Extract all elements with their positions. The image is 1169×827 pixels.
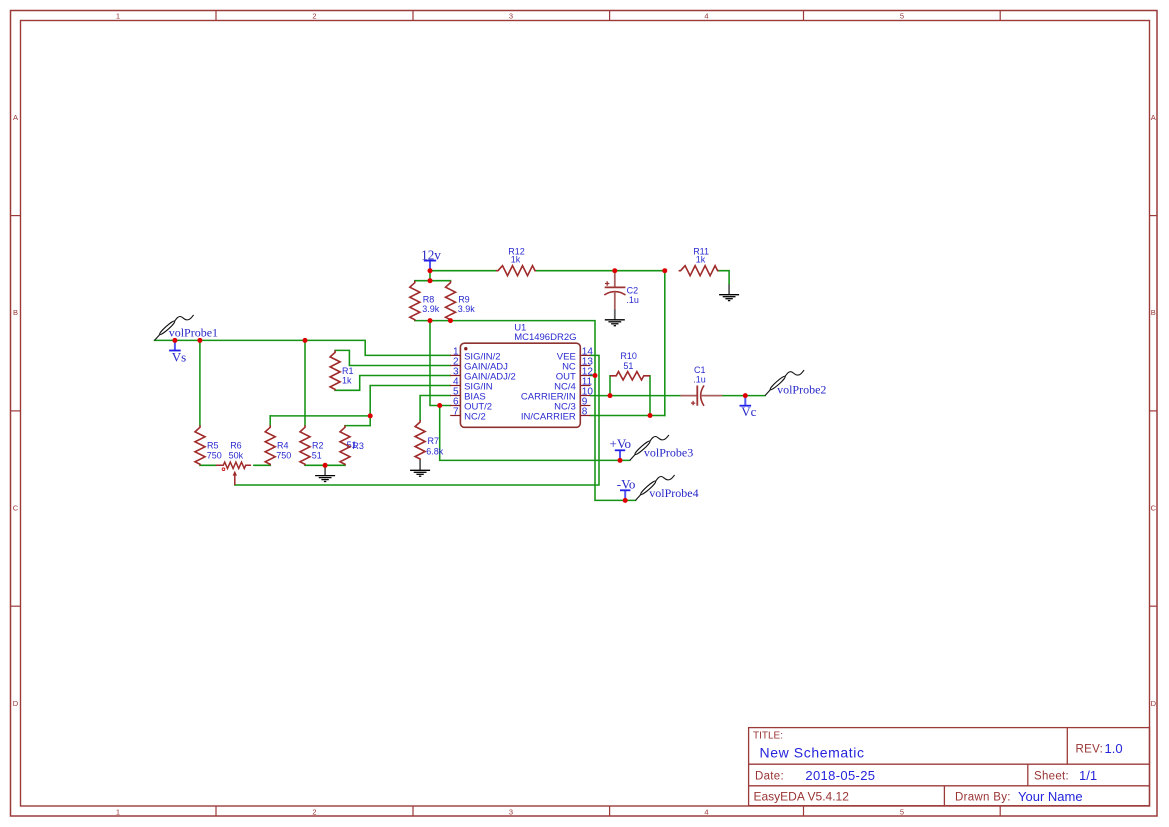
wire pin 4 to R3 bbox=[345, 386, 450, 426]
wire R12 to R11 rail bbox=[536, 270, 665, 272]
wire R1 top to pin 2 bbox=[335, 350, 450, 365]
svg-text:1: 1 bbox=[116, 12, 120, 21]
svg-text:R5: R5 bbox=[207, 440, 219, 450]
junction Vs flag bbox=[172, 338, 177, 343]
svg-text:3: 3 bbox=[509, 12, 513, 21]
svg-text:REV:: REV: bbox=[1076, 744, 1104, 756]
junction R10 right bbox=[648, 413, 653, 418]
wire pin 10 to C1 bbox=[591, 395, 681, 397]
svg-text:2018-05-25: 2018-05-25 bbox=[805, 768, 875, 783]
svg-text:50k: 50k bbox=[229, 451, 244, 461]
svg-text:2: 2 bbox=[312, 808, 316, 817]
junction pin 4 R4 bbox=[368, 413, 373, 418]
wire pin 6 to +Vo probe bbox=[440, 406, 630, 461]
wire R4 top drop bbox=[269, 416, 271, 425]
U1 left pin numbers 1-7 bbox=[453, 346, 459, 417]
resistor R9 bbox=[446, 281, 476, 321]
wire R11 to ground bbox=[719, 271, 730, 285]
capacitor C2 .1u bbox=[604, 271, 639, 310]
potentiometer R6 50k bbox=[216, 441, 251, 486]
wire C1 to Vc probe bbox=[722, 395, 765, 397]
svg-text:Drawn By:: Drawn By: bbox=[955, 792, 1011, 804]
title block outline bbox=[749, 728, 1150, 806]
junction R10 left bbox=[608, 393, 613, 398]
svg-text:Sheet:: Sheet: bbox=[1034, 771, 1069, 783]
svg-text:1.0: 1.0 bbox=[1105, 741, 1123, 756]
svg-text:1: 1 bbox=[116, 808, 120, 817]
svg-text:MC1496DR2G: MC1496DR2G bbox=[514, 332, 576, 343]
resistor R11 bbox=[679, 246, 719, 275]
capacitor C1 .1u bbox=[680, 365, 722, 406]
svg-text:C1: C1 bbox=[694, 365, 706, 375]
svg-text:R1: R1 bbox=[342, 366, 354, 376]
U1 right pin numbers 14-8 bbox=[582, 346, 594, 417]
net flag Vc bbox=[740, 396, 757, 419]
svg-text:A: A bbox=[13, 113, 18, 122]
svg-text:Vs: Vs bbox=[172, 349, 186, 364]
svg-text:D: D bbox=[1151, 699, 1157, 708]
svg-text:.1u: .1u bbox=[626, 295, 639, 305]
svg-text:6.8k: 6.8k bbox=[426, 446, 444, 456]
svg-text:750: 750 bbox=[276, 450, 291, 460]
svg-text:12v: 12v bbox=[421, 248, 441, 263]
resistor R5 bbox=[195, 425, 222, 465]
resistor R8 bbox=[410, 281, 440, 321]
svg-text:volProbe2: volProbe2 bbox=[777, 382, 826, 396]
svg-text:A: A bbox=[1151, 113, 1156, 122]
ground C2 bbox=[605, 310, 625, 326]
svg-text:-Vo: -Vo bbox=[617, 476, 636, 491]
svg-text:C: C bbox=[1151, 504, 1157, 513]
wire R2 R3 bottom bbox=[305, 464, 345, 466]
U1 pin 1 marker dot bbox=[464, 347, 467, 350]
svg-text:B: B bbox=[13, 308, 18, 317]
resistor R4 bbox=[265, 425, 291, 465]
svg-text:R2: R2 bbox=[312, 440, 324, 450]
svg-text:1/1: 1/1 bbox=[1079, 768, 1097, 783]
resistor R7 bbox=[415, 420, 444, 460]
ground R7 bbox=[410, 460, 430, 476]
wire R10 right drop bbox=[649, 376, 651, 416]
frame row letters right bbox=[1151, 113, 1157, 708]
resistor R1 bbox=[330, 350, 353, 390]
junction R8 bottom bbox=[428, 318, 433, 323]
svg-text:750: 750 bbox=[207, 450, 222, 460]
junction R8 R9 top bbox=[428, 278, 433, 283]
svg-text:R4: R4 bbox=[277, 440, 289, 450]
junction R11 rail bbox=[662, 268, 667, 273]
svg-text:51: 51 bbox=[312, 450, 322, 460]
junction C2 rail bbox=[612, 268, 617, 273]
svg-text:4: 4 bbox=[704, 808, 708, 817]
svg-text:8: 8 bbox=[582, 406, 588, 417]
svg-text:R10: R10 bbox=[620, 351, 637, 361]
svg-text:Your Name: Your Name bbox=[1018, 789, 1083, 804]
svg-text:5: 5 bbox=[900, 12, 904, 21]
net flag Vs bbox=[169, 340, 186, 364]
U1 left pin names bbox=[464, 351, 516, 422]
svg-text:5: 5 bbox=[900, 808, 904, 817]
wire R8 R9 top bbox=[415, 280, 451, 282]
probe volProbe2 bbox=[765, 370, 826, 396]
svg-text:New Schematic: New Schematic bbox=[760, 745, 865, 761]
svg-text:volProbe1: volProbe1 bbox=[169, 326, 218, 340]
svg-text:IN/CARRIER: IN/CARRIER bbox=[521, 411, 576, 422]
ground R11 bbox=[719, 284, 739, 300]
svg-text:3.9k: 3.9k bbox=[458, 304, 476, 314]
svg-text:51: 51 bbox=[623, 361, 633, 371]
svg-text:R3: R3 bbox=[352, 441, 364, 451]
junction +Vo flag bbox=[618, 458, 623, 463]
svg-text:NC/2: NC/2 bbox=[464, 411, 486, 422]
wire 12v rail to R12 bbox=[430, 270, 496, 272]
svg-text:C: C bbox=[13, 504, 19, 513]
svg-text:+Vo: +Vo bbox=[610, 436, 632, 451]
svg-text:volProbe4: volProbe4 bbox=[649, 486, 698, 500]
junction Vc flag bbox=[743, 393, 748, 398]
wire R5 to R6 bbox=[200, 464, 216, 466]
frame column numbers bottom bbox=[116, 808, 904, 817]
svg-text:Vc: Vc bbox=[741, 404, 756, 419]
svg-text:2: 2 bbox=[312, 12, 316, 21]
junction 12v rail bbox=[428, 268, 433, 273]
svg-text:D: D bbox=[13, 699, 19, 708]
svg-text:.1u: .1u bbox=[693, 375, 706, 385]
probe volProbe4 bbox=[636, 475, 699, 501]
net flag +Vo bbox=[610, 436, 632, 461]
svg-text:3.9k: 3.9k bbox=[422, 304, 440, 314]
U1 right pin names bbox=[521, 351, 576, 422]
resistor R3 bbox=[340, 425, 364, 465]
net flag -Vo bbox=[617, 476, 636, 500]
resistor R10 bbox=[610, 351, 650, 380]
svg-text:volProbe3: volProbe3 bbox=[644, 446, 693, 460]
U1 left pin stubs 1-7 bbox=[450, 355, 460, 415]
junction -Vo flag bbox=[623, 498, 628, 503]
U1 right pin stubs 8-14 bbox=[580, 355, 590, 415]
frame row letters left bbox=[13, 113, 19, 708]
wire R5 drop bbox=[199, 340, 201, 425]
wire 12v to R8 R9 junction bbox=[429, 271, 431, 281]
power flag 12v bbox=[421, 248, 441, 271]
svg-text:R7: R7 bbox=[428, 436, 440, 446]
svg-text:7: 7 bbox=[453, 406, 459, 417]
junction ground R2 R3 bbox=[323, 463, 328, 468]
wire pin 5 to R7 bbox=[420, 396, 450, 421]
wire R10 left drop bbox=[609, 376, 611, 396]
svg-text:B: B bbox=[1151, 308, 1156, 317]
junction pin 6 out bbox=[437, 403, 442, 408]
probe volProbe1 bbox=[155, 315, 219, 341]
frame column numbers top bbox=[116, 12, 904, 21]
junction R9 bottom bbox=[448, 318, 453, 323]
wire pin 8 row bbox=[591, 415, 665, 417]
svg-text:1k: 1k bbox=[511, 254, 521, 264]
wire R8 bottom to OUT to -Vo bbox=[415, 321, 636, 501]
svg-text:EasyEDA V5.4.12: EasyEDA V5.4.12 bbox=[754, 790, 850, 804]
svg-text:Date:: Date: bbox=[755, 771, 784, 783]
probe volProbe3 bbox=[630, 435, 693, 461]
junction R5 bbox=[197, 338, 202, 343]
svg-text:4: 4 bbox=[704, 12, 708, 21]
svg-text:R6: R6 bbox=[230, 441, 242, 451]
wire R1 bottom to pin 3 bbox=[335, 376, 450, 391]
resistor R2 bbox=[300, 425, 324, 465]
svg-text:1k: 1k bbox=[696, 254, 706, 264]
wire rail drop to pin 8 bbox=[664, 271, 666, 416]
junction pin 12 OUT bbox=[593, 373, 598, 378]
wire pin 12 stub link bbox=[591, 375, 596, 377]
svg-text:1k: 1k bbox=[342, 376, 352, 386]
wire VEE to R6 wiper bbox=[235, 355, 599, 485]
op-amp U1 MC1496DR2G body bbox=[460, 343, 580, 427]
resistor R12 bbox=[496, 246, 536, 275]
junction R2 bbox=[303, 338, 308, 343]
wire Vs rail to pin 1 bbox=[155, 340, 451, 355]
wire pin 6 up to R8 junction bbox=[430, 321, 450, 406]
wire R2 drop bbox=[304, 340, 306, 425]
ground R2 R3 bbox=[315, 465, 335, 481]
svg-text:TITLE:: TITLE: bbox=[753, 731, 783, 742]
wire R4 top link bbox=[270, 415, 370, 417]
svg-text:3: 3 bbox=[509, 808, 513, 817]
wire R6 to R4 bbox=[254, 464, 270, 466]
